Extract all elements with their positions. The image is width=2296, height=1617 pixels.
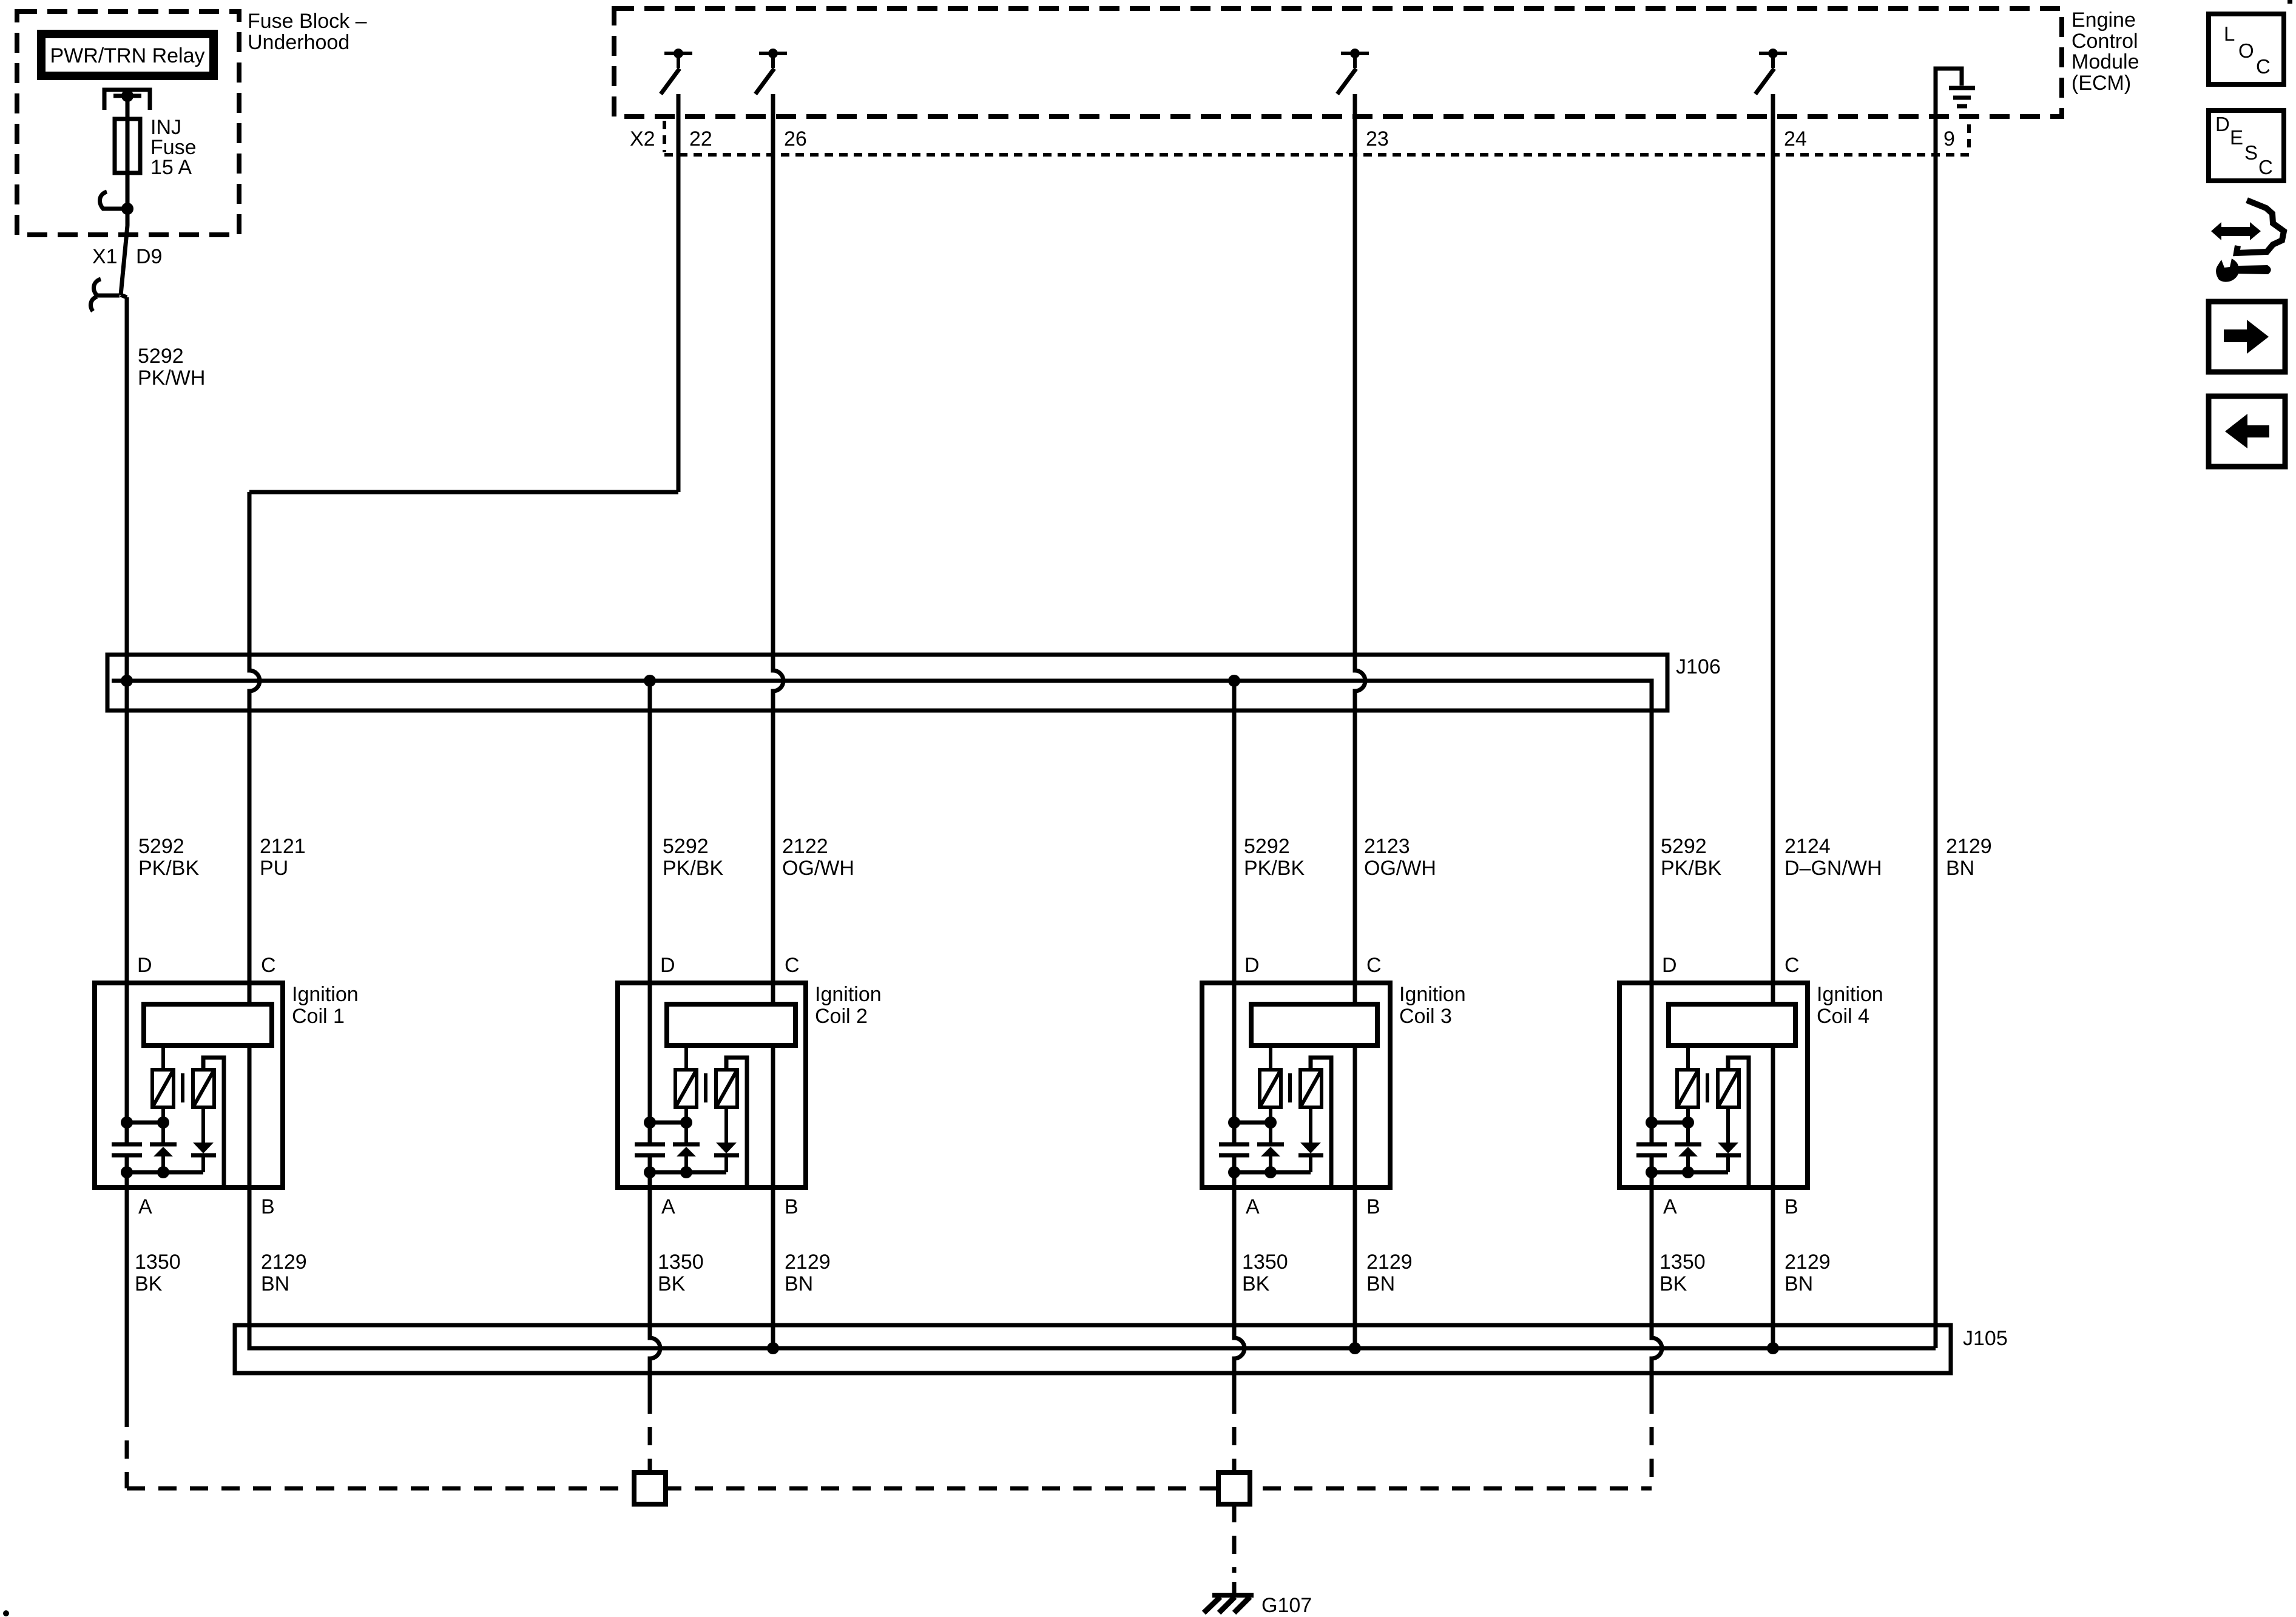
primary winding coil 3 xyxy=(1260,1045,1281,1122)
wire 2129 BN coil 2 B to splice J105 xyxy=(771,1187,775,1348)
wire coil 3 D pin internal xyxy=(1232,983,1237,1144)
svg-text:22: 22 xyxy=(689,127,712,150)
svg-text:O: O xyxy=(2238,39,2254,62)
pin 26 xyxy=(784,127,807,150)
wire 1350 BK coil 1 A to ground run xyxy=(125,1187,129,1488)
svg-text:A: A xyxy=(1663,1195,1677,1218)
pin B coil 4 xyxy=(1784,1195,1798,1218)
svg-text:PWR/TRN Relay: PWR/TRN Relay xyxy=(50,44,204,67)
svg-text:BN: BN xyxy=(785,1272,813,1295)
svg-text:Ignition: Ignition xyxy=(1817,983,1883,1006)
junction J105 / coil3 B xyxy=(1349,1342,1361,1354)
svg-text:J105: J105 xyxy=(1963,1327,2008,1350)
svg-text:C: C xyxy=(261,954,276,977)
svg-text:C: C xyxy=(2258,156,2273,178)
icon previous page (left arrow) xyxy=(2209,396,2285,467)
node row coil 1 ground side xyxy=(121,1166,203,1178)
svg-text:9: 9 xyxy=(1943,127,1955,150)
ignition coil 1 box xyxy=(95,983,283,1187)
svg-text:X2: X2 xyxy=(630,127,655,150)
wire coil 4 capacitor to A pin xyxy=(1650,1155,1654,1187)
wire 2122 OG/WH : pin 26 to coil 2 C (hops over J106) xyxy=(773,94,783,1007)
svg-text:BN: BN xyxy=(261,1272,289,1295)
primary winding coil 1 xyxy=(152,1045,174,1122)
label 2129 BN coil 4 xyxy=(1784,1251,1831,1295)
label Ignition Coil 2 xyxy=(815,983,882,1028)
svg-text:Coil 2: Coil 2 xyxy=(815,1005,868,1028)
svg-text:1350: 1350 xyxy=(1242,1251,1288,1274)
label 2129 BN coil 1 xyxy=(261,1251,307,1295)
pin D coil 3 xyxy=(1244,954,1260,977)
svg-text:24: 24 xyxy=(1784,127,1807,150)
svg-text:D9: D9 xyxy=(136,245,162,268)
svg-text:BK: BK xyxy=(658,1272,686,1295)
high tension lead coil 4 xyxy=(1728,1058,1749,1187)
pin A coil 2 xyxy=(661,1195,675,1218)
diode coil 4 secondary xyxy=(1716,1107,1741,1172)
svg-text:Coil 4: Coil 4 xyxy=(1817,1005,1869,1028)
svg-text:A: A xyxy=(138,1195,152,1218)
svg-text:Module: Module xyxy=(2071,50,2139,73)
svg-text:(ECM): (ECM) xyxy=(2071,72,2131,95)
ECM coil driver switch pin 26 xyxy=(755,49,787,94)
node row coil 2 primary low xyxy=(644,1116,692,1129)
svg-text:E: E xyxy=(2230,126,2243,149)
svg-text:5292: 5292 xyxy=(138,835,184,858)
high tension lead coil 1 xyxy=(203,1058,224,1187)
ignition coil 1 module block xyxy=(144,1004,272,1045)
pin C coil 4 xyxy=(1784,954,1800,977)
wire 5292 PK/BK to coil 4 D xyxy=(1650,711,1654,983)
pin D coil 1 xyxy=(137,954,152,977)
pin C coil 2 xyxy=(785,954,800,977)
ground splice (coil 2 branch) xyxy=(634,1473,666,1504)
icon LOC xyxy=(2209,14,2284,84)
svg-text:PK/WH: PK/WH xyxy=(138,366,205,390)
svg-text:C: C xyxy=(1366,954,1382,977)
svg-text:Ignition: Ignition xyxy=(292,983,359,1006)
wire coil 4 C to module xyxy=(1771,983,1775,1007)
secondary winding coil 3 xyxy=(1300,1070,1322,1107)
svg-text:Ignition: Ignition xyxy=(815,983,882,1006)
wire 2129 BN coil 1 B to splice J105 xyxy=(249,1187,267,1348)
svg-text:OG/WH: OG/WH xyxy=(1364,857,1436,880)
label Fuse Block - Underhood xyxy=(248,10,367,54)
svg-text:D–GN/WH: D–GN/WH xyxy=(1784,857,1882,880)
svg-text:26: 26 xyxy=(784,127,807,150)
svg-text:B: B xyxy=(261,1195,275,1218)
pin C coil 1 xyxy=(261,954,276,977)
secondary winding coil 2 xyxy=(716,1070,737,1107)
wire 1350 BK coil 4 A (hops over J105) xyxy=(1652,1187,1662,1488)
svg-text:OG/WH: OG/WH xyxy=(782,857,854,880)
svg-text:2124: 2124 xyxy=(1784,835,1831,858)
pin 23 xyxy=(1366,127,1389,150)
pin D coil 4 xyxy=(1662,954,1677,977)
wire 5292 PK/BK to coil 1 D xyxy=(125,681,129,983)
capacitor coil 4 xyxy=(1636,1144,1667,1155)
pin A coil 3 xyxy=(1246,1195,1260,1218)
wire 5292 PK/BK to coil 2 D xyxy=(648,681,652,983)
label G107 xyxy=(1261,1594,1312,1617)
pin 9 xyxy=(1943,127,1955,150)
ground splice (coil 3 branch) xyxy=(1218,1473,1250,1504)
svg-text:BK: BK xyxy=(135,1272,163,1295)
ignition coil 4 module block xyxy=(1669,1004,1795,1045)
diode coil 1 secondary xyxy=(191,1107,216,1172)
high tension lead coil 2 xyxy=(726,1058,747,1187)
wire relay to fuse xyxy=(126,96,130,119)
svg-text:23: 23 xyxy=(1366,127,1389,150)
pin B coil 2 xyxy=(785,1195,799,1218)
wire coil 1 C to module xyxy=(248,983,252,1007)
svg-text:B: B xyxy=(1366,1195,1380,1218)
label J106 xyxy=(1676,655,1721,678)
svg-text:G107: G107 xyxy=(1261,1594,1312,1617)
page mark top right xyxy=(2288,0,2292,4)
svg-text:1350: 1350 xyxy=(135,1251,181,1274)
node row coil 4 primary low xyxy=(1646,1116,1694,1129)
label 2129 BN coil 2 xyxy=(785,1251,831,1295)
icon diagnostic (arrow and wrench) xyxy=(2211,200,2284,282)
svg-text:15 A: 15 A xyxy=(150,156,192,179)
svg-text:2123: 2123 xyxy=(1364,835,1410,858)
label Ignition Coil 4 xyxy=(1817,983,1883,1028)
junction J106 / coil1 D xyxy=(121,675,133,687)
ignition coil 2 module block xyxy=(667,1004,795,1045)
zener diode coil 1 xyxy=(150,1122,177,1172)
svg-text:A: A xyxy=(661,1195,675,1218)
wire 5292 PK/BK to coil 3 D xyxy=(1232,681,1237,983)
wire coil 3 module to B xyxy=(1353,1043,1357,1187)
svg-text:PK/BK: PK/BK xyxy=(1661,857,1721,880)
label J105 xyxy=(1963,1327,2008,1350)
junction J106 / coil3 D xyxy=(1228,675,1240,687)
ECM dashed box xyxy=(614,8,2062,116)
svg-text:PK/BK: PK/BK xyxy=(138,857,199,880)
svg-text:Coil 1: Coil 1 xyxy=(292,1005,345,1028)
pin D coil 2 xyxy=(660,954,675,977)
svg-text:C: C xyxy=(2256,55,2271,78)
pin B coil 3 xyxy=(1366,1195,1380,1218)
junction J105 / coil4 B xyxy=(1767,1342,1779,1354)
pin C coil 3 xyxy=(1366,954,1382,977)
node row coil 3 primary low xyxy=(1228,1116,1277,1129)
svg-text:D: D xyxy=(660,954,675,977)
label Ignition Coil 3 xyxy=(1399,983,1466,1028)
svg-text:Ignition: Ignition xyxy=(1399,983,1466,1006)
icon next page (right arrow) xyxy=(2209,302,2285,372)
label Ignition Coil 1 xyxy=(292,983,359,1028)
secondary winding coil 4 xyxy=(1718,1070,1739,1107)
ignition coil 4 box xyxy=(1619,983,1808,1187)
primary winding coil 2 xyxy=(675,1045,697,1122)
ignition coil 3 box xyxy=(1202,983,1390,1187)
svg-text:PK/BK: PK/BK xyxy=(663,857,723,880)
capacitor coil 2 xyxy=(635,1144,665,1155)
svg-text:X1: X1 xyxy=(92,245,118,268)
svg-text:Control: Control xyxy=(2071,30,2138,53)
wire coil 2 D pin internal xyxy=(648,983,652,1144)
ECM coil driver switch pin 24 xyxy=(1755,49,1787,94)
pin 22 xyxy=(689,127,712,150)
wire fuse to connector xyxy=(126,173,130,209)
label 1350 BK coil 2 xyxy=(658,1251,704,1295)
junction J105 / coil2 B xyxy=(767,1342,779,1354)
fuse block underhood dashed box xyxy=(17,12,239,235)
relay contact terminal clip xyxy=(104,90,150,110)
svg-text:C: C xyxy=(785,954,800,977)
wire 1350 BK coil 3 A (hops over J105) xyxy=(1234,1187,1244,1473)
wire 2129 BN coil 4 B to splice J105 xyxy=(1771,1187,1775,1348)
svg-text:PU: PU xyxy=(260,857,288,880)
page mark bottom left xyxy=(3,1610,9,1616)
pin A coil 1 xyxy=(138,1195,152,1218)
wire coil 1 module to B xyxy=(248,1043,252,1187)
wire 5292 PK/WH xyxy=(121,295,205,681)
diode coil 3 secondary xyxy=(1298,1107,1323,1172)
ignition coil 3 module block xyxy=(1251,1004,1377,1045)
ignition coil 2 box xyxy=(618,983,806,1187)
core coil 3 xyxy=(1288,1073,1292,1102)
label INJ Fuse 15 A xyxy=(150,116,197,179)
core coil 4 xyxy=(1706,1073,1709,1102)
svg-text:Coil 3: Coil 3 xyxy=(1399,1005,1452,1028)
icon DESC xyxy=(2209,110,2284,181)
svg-text:1350: 1350 xyxy=(1660,1251,1706,1274)
svg-text:BN: BN xyxy=(1946,857,1974,880)
wire coil 1 D pin internal xyxy=(125,983,129,1144)
svg-text:D: D xyxy=(1662,954,1677,977)
splice J106 xyxy=(107,655,1667,711)
svg-text:5292: 5292 xyxy=(1244,835,1290,858)
svg-text:Engine: Engine xyxy=(2071,8,2136,32)
capacitor coil 3 xyxy=(1219,1144,1249,1155)
svg-text:J106: J106 xyxy=(1676,655,1721,678)
svg-text:2121: 2121 xyxy=(260,835,306,858)
capacitor coil 1 xyxy=(112,1144,142,1155)
svg-text:A: A xyxy=(1246,1195,1260,1218)
svg-text:2129: 2129 xyxy=(261,1251,307,1274)
label X2 xyxy=(630,127,655,150)
svg-text:B: B xyxy=(785,1195,799,1218)
svg-text:5292: 5292 xyxy=(1661,835,1707,858)
ground run dashed wire to G107 xyxy=(127,1487,1652,1491)
pin B coil 1 xyxy=(261,1195,275,1218)
relay PWR/TRN Relay xyxy=(41,34,214,76)
label 1350 BK coil 4 xyxy=(1660,1251,1706,1295)
label Engine Control Module (ECM) xyxy=(2071,8,2139,95)
core coil 1 xyxy=(181,1073,184,1102)
svg-text:S: S xyxy=(2244,141,2258,164)
wire 2124 D-GN/WH : pin 24 to coil 4 C xyxy=(1771,94,1775,1007)
svg-text:L: L xyxy=(2224,22,2235,45)
zener diode coil 2 xyxy=(673,1122,700,1172)
junction J106 / coil2 D xyxy=(644,675,656,687)
ECM connector X2 dotted strip xyxy=(664,121,1969,155)
pin 24 xyxy=(1784,127,1807,150)
node row coil 4 ground side xyxy=(1646,1166,1728,1178)
wire coil 2 module to B xyxy=(771,1043,775,1187)
svg-text:D: D xyxy=(1244,954,1260,977)
ECM coil driver switch pin 23 xyxy=(1337,49,1369,94)
wire 2129 BN : ECM pin 9 to splice J105 xyxy=(1934,155,1938,1348)
svg-text:C: C xyxy=(1784,954,1800,977)
ground (ECM internal, pin 9) xyxy=(1936,69,1975,155)
zener diode coil 4 xyxy=(1675,1122,1701,1172)
pin A coil 4 xyxy=(1663,1195,1677,1218)
wire coil 2 C to module xyxy=(771,983,775,1007)
wire 1350 BK coil 2 A (hops over J105) xyxy=(650,1187,660,1473)
wire coil 2 capacitor to A pin xyxy=(648,1155,652,1187)
wire coil 1 capacitor to A pin xyxy=(125,1155,129,1187)
wire 2123 OG/WH : pin 23 to coil 3 C (hops over J106) xyxy=(1355,94,1365,1007)
svg-text:5292: 5292 xyxy=(663,835,709,858)
svg-text:PK/BK: PK/BK xyxy=(1244,857,1305,880)
label 1350 BK coil 3 xyxy=(1242,1251,1288,1295)
svg-text:5292: 5292 xyxy=(138,345,184,368)
ECM coil driver switch pin 22 xyxy=(661,49,692,94)
svg-text:BN: BN xyxy=(1366,1272,1395,1295)
svg-text:2129: 2129 xyxy=(1946,835,1992,858)
svg-text:2122: 2122 xyxy=(782,835,828,858)
zener diode coil 3 xyxy=(1257,1122,1284,1172)
primary winding coil 4 xyxy=(1677,1045,1698,1122)
secondary winding coil 1 xyxy=(193,1070,214,1107)
svg-text:D: D xyxy=(2215,113,2230,135)
high tension lead coil 3 xyxy=(1311,1058,1331,1187)
label 1350 BK coil 1 xyxy=(135,1251,181,1295)
core coil 2 xyxy=(704,1073,707,1102)
svg-text:D: D xyxy=(137,954,152,977)
wire splice to ground G107 xyxy=(1232,1504,1237,1595)
svg-text:1350: 1350 xyxy=(658,1251,704,1274)
diode coil 2 secondary xyxy=(714,1107,739,1172)
wire coil 3 C to module xyxy=(1353,983,1357,1007)
node row coil 3 ground side xyxy=(1228,1166,1311,1178)
wire labels 5292 PK/BK (x4) and control wires xyxy=(138,835,1992,880)
node row coil 1 primary low xyxy=(121,1116,169,1129)
wire 2121 PU : pin 22 jog to coil 1 C (hops over J106) xyxy=(249,94,678,1007)
svg-text:2129: 2129 xyxy=(785,1251,831,1274)
ground G107 xyxy=(1204,1595,1254,1613)
splice J105 xyxy=(235,1325,1951,1373)
svg-text:2129: 2129 xyxy=(1784,1251,1831,1274)
svg-text:B: B xyxy=(1784,1195,1798,1218)
svg-text:Fuse Block –: Fuse Block – xyxy=(248,10,367,33)
node row coil 2 ground side xyxy=(644,1166,726,1178)
fuse INJ Fuse 15 A xyxy=(115,119,140,173)
wire coil 4 module to B xyxy=(1771,1043,1775,1187)
svg-text:Underhood: Underhood xyxy=(248,31,349,54)
connector X1 pin D9 xyxy=(90,209,162,311)
wire 2129 BN coil 3 B to splice J105 xyxy=(1353,1187,1357,1348)
svg-text:BK: BK xyxy=(1242,1272,1270,1295)
svg-text:BK: BK xyxy=(1660,1272,1687,1295)
connector terminal (fuse block outlet) xyxy=(100,192,133,215)
wire coil 4 D pin internal xyxy=(1650,983,1654,1144)
svg-text:BN: BN xyxy=(1784,1272,1813,1295)
wire coil 3 capacitor to A pin xyxy=(1232,1155,1237,1187)
svg-text:2129: 2129 xyxy=(1366,1251,1413,1274)
label 2129 BN coil 3 xyxy=(1366,1251,1413,1295)
